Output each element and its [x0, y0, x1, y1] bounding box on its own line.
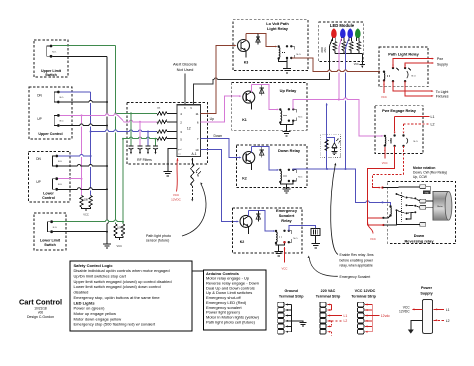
wire black upper limit common	[53, 55, 108, 57]
ground K1	[282, 131, 290, 133]
svg-text:K2: K2	[242, 177, 247, 181]
svg-text:LED Module: LED Module	[330, 23, 355, 28]
svg-text:K2: K2	[240, 240, 245, 244]
svg-text:VCC: VCC	[83, 213, 89, 217]
wire blue upper DN	[60, 91, 91, 93]
leader arrow future sensor	[182, 184, 206, 237]
upper control box	[29, 87, 72, 139]
svg-text:L1: L1	[431, 115, 435, 119]
LED D5 red	[332, 29, 337, 38]
wire black switch-common vertical to ground	[106, 56, 108, 244]
svg-text:gnd: gnd	[178, 149, 181, 151]
svg-text:VCC: VCC	[282, 267, 288, 271]
wire reversing top feed	[383, 186, 420, 189]
wire blue pin 7 Down to K2	[200, 139, 240, 158]
svg-text:K1: K1	[242, 118, 247, 122]
svg-text:GND: GND	[425, 193, 430, 195]
svg-text:N.O.: N.O.	[52, 51, 57, 53]
svg-text:VCC: VCC	[381, 95, 387, 99]
wire blue future LED tap	[326, 104, 328, 170]
transistor Q1	[243, 91, 255, 103]
diode D1	[261, 85, 263, 96]
wire 12vdc	[372, 314, 379, 316]
ground sonalert	[275, 251, 283, 253]
wire L2 in power supply dashed	[434, 319, 444, 321]
svg-text:Cart Control: Cart Control	[19, 298, 62, 307]
wire sonalert relay common to ground	[276, 242, 285, 245]
capacitor RF C2	[139, 122, 141, 146]
svg-text:Motor up engage yellow: Motor up engage yellow	[74, 311, 117, 316]
wire red power engage output solid	[368, 146, 395, 218]
VCC stub sonalert contact	[284, 247, 286, 249]
svg-text:Up Relay: Up Relay	[280, 88, 297, 93]
svg-text:Emergency Sonalert: Emergency Sonalert	[340, 275, 371, 279]
wire brown pin 11 to K3	[200, 46, 235, 114]
svg-text:Design C.Gordon: Design C.Gordon	[27, 315, 54, 319]
lower limit switch box	[34, 213, 66, 250]
wire motor lead 2	[415, 206, 420, 208]
svg-text:Path light photo cell (future): Path light photo cell (future)	[206, 319, 256, 324]
resistor RF R4	[157, 137, 167, 140]
wire T1 to motor top	[426, 187, 431, 191]
wire black lower UP common rail	[58, 188, 107, 190]
svg-text:Up, CCW: Up, CCW	[413, 175, 428, 179]
relay K1 coil	[279, 108, 281, 110]
wire magenta UP bus vertical	[81, 115, 83, 195]
wire red dashed to reversing relay top	[372, 146, 403, 186]
wire motor lead 1	[415, 198, 420, 201]
svg-text:N.O.: N.O.	[53, 227, 58, 229]
svg-text:Down: Down	[213, 134, 222, 138]
svg-text:Disable individual up/dn contr: Disable individual up/dn controls when m…	[74, 268, 170, 273]
wire blue LED3 drop to K2 output rail	[346, 38, 349, 169]
svg-text:VCC: VCC	[117, 244, 123, 248]
wire red to light fixtures 1	[393, 81, 433, 91]
transistor Q3	[238, 40, 250, 52]
relay reversing coil	[389, 205, 391, 207]
wire black upper DN common rail	[60, 101, 107, 103]
resistor LED R7	[350, 42, 353, 51]
svg-text:N.O.: N.O.	[58, 184, 63, 186]
svg-text:Path light photo: Path light photo	[146, 234, 171, 238]
svg-text:VCC 12VDC: VCC 12VDC	[355, 289, 376, 293]
wire green lower limit to pin5 bus	[53, 221, 123, 223]
terminal spade T2	[420, 199, 426, 203]
svg-text:Terminal Strip: Terminal Strip	[279, 295, 304, 299]
wire magenta K1 output to LED and power engage relay	[293, 100, 382, 136]
svg-text:Down, CW (Rev Relay): Down, CW (Rev Relay)	[413, 170, 447, 174]
svg-text:L2: L2	[344, 319, 348, 323]
RF filters and controller dashed box	[127, 103, 208, 164]
relay path contacts	[392, 67, 394, 69]
svg-text:Safety Control Logic: Safety Control Logic	[74, 263, 114, 268]
wire sonalert collector to relay coil	[258, 211, 274, 232]
resistor R-up 10K pullup	[80, 195, 83, 207]
K3 driver box Lo Volt Path Light Relay	[233, 20, 308, 71]
wire red branch to VCC rev relay	[368, 222, 373, 234]
lower control box	[29, 152, 71, 203]
svg-text:N.O.: N.O.	[60, 121, 65, 123]
ground K3	[283, 68, 291, 70]
wire black upper UP common rail	[60, 125, 107, 127]
svg-text:Path Light Relay: Path Light Relay	[388, 51, 419, 56]
svg-text:Supply: Supply	[437, 63, 448, 67]
resistor LED R6	[342, 42, 345, 51]
K2 driver box Down Relay	[237, 145, 308, 187]
svg-text:Enable Rev relay .5ms: Enable Rev relay .5ms	[340, 253, 374, 257]
svg-text:ohm: ohm	[324, 48, 327, 53]
svg-text:L1: L1	[446, 308, 450, 312]
wire blue sonalert output to speaker	[289, 226, 316, 231]
relay K3 coil	[278, 45, 280, 47]
resistor LED R8	[357, 42, 360, 51]
svg-text:L2: L2	[431, 123, 435, 127]
relay K2 contacts N.O.	[288, 169, 290, 171]
wire red Pwr feed	[393, 59, 433, 68]
svg-text:Motor: Motor	[437, 205, 443, 208]
svg-text:LED Lights: LED Lights	[74, 300, 96, 305]
svg-text:UP: UP	[36, 180, 40, 184]
svg-text:L2: L2	[446, 319, 450, 323]
K1 driver box Up Relay	[232, 83, 307, 131]
wire red branch to reversing relay lower	[368, 218, 383, 225]
svg-text:Up/Dn limit switches stop cart: Up/Dn limit switches stop cart	[74, 274, 127, 279]
wire green upper-limit vertical	[115, 46, 117, 224]
ground power supply	[411, 320, 423, 329]
safety control logic notes box	[70, 261, 192, 331]
resistor R-dn 10K pullup	[89, 195, 92, 207]
wire L1 in power supply	[434, 308, 444, 310]
svg-text:N.O.: N.O.	[60, 97, 65, 99]
capacitor RF C4	[155, 139, 157, 146]
path light relay box	[379, 47, 428, 87]
svg-text:Relay: Relay	[281, 218, 292, 223]
svg-text:Pwr Engage Relay: Pwr Engage Relay	[382, 108, 417, 113]
svg-text:12VDC: 12VDC	[399, 310, 410, 314]
resistor future R	[325, 140, 328, 151]
svg-text:L1: L1	[344, 314, 348, 318]
arduino controls notes box	[204, 270, 267, 330]
terminal GND plate	[423, 191, 431, 195]
wire LED resistor common rail to VCC	[335, 53, 362, 55]
terminal spade T3	[420, 205, 426, 209]
svg-text:N.O.: N.O.	[58, 161, 63, 163]
leader enable rev relay	[331, 165, 338, 255]
svg-text:Lower limit switch engaged (cl: Lower limit switch engaged (closed) down…	[74, 284, 161, 289]
svg-text:Terminal Strip: Terminal Strip	[351, 295, 376, 299]
relay K1 contacts N.O.	[288, 108, 290, 110]
svg-text:DN: DN	[37, 93, 42, 97]
svg-text:Switch: Switch	[44, 243, 56, 247]
svg-text:Motor down engage yellow: Motor down engage yellow	[74, 316, 122, 321]
svg-text:12vdc: 12vdc	[381, 314, 390, 318]
wire red L1 feed	[395, 115, 430, 117]
relay reversing contacts	[396, 193, 398, 195]
terminal spade T4	[420, 223, 426, 227]
upper limit switch box	[34, 40, 68, 77]
wire K3 relay common bottom to ground	[279, 58, 287, 62]
wire L2 220vac dashed	[332, 320, 343, 322]
wire magenta upper UP	[60, 114, 82, 116]
switch upper UP N.O.	[57, 114, 60, 117]
svg-text:UP: UP	[37, 117, 41, 121]
ground K2	[282, 188, 290, 190]
svg-text:220 VAC: 220 VAC	[321, 289, 336, 293]
svg-text:vcc: vcc	[178, 154, 181, 156]
sonalert speaker LS1	[311, 229, 320, 236]
svg-text:A-1: A-1	[192, 152, 197, 156]
wire magenta pin 6 Up to K1	[200, 96, 240, 122]
wire reversing common to T4	[397, 210, 420, 224]
wire red to light fixtures 2	[405, 81, 433, 96]
wire blue DN bus vertical	[90, 92, 92, 195]
svg-text:sensor (future): sensor (future)	[146, 239, 169, 243]
wire blue pin 10 to sonalert driver	[200, 149, 238, 221]
transistor Q4	[240, 215, 252, 227]
wire green lower-limit vertical	[122, 139, 124, 224]
svg-text:relay, when applicable: relay, when applicable	[340, 264, 373, 268]
relay sonalert contacts N.O.	[283, 230, 285, 232]
wire K2 relay common to ground	[280, 181, 293, 184]
svg-text:N.O.: N.O.	[412, 76, 417, 78]
wire alert stub pin 8	[184, 74, 186, 105]
LED D6 blue	[341, 29, 346, 38]
svg-text:N.O.: N.O.	[298, 177, 303, 179]
svg-text:VCC: VCC	[354, 63, 359, 66]
relay path coil	[383, 71, 385, 73]
svg-text:N.O.: N.O.	[414, 141, 419, 143]
wire alert pin 9 to LED1	[193, 62, 329, 105]
svg-text:Ground: Ground	[285, 289, 299, 293]
wire blue to reversing coil	[388, 202, 391, 206]
resistor LED R5	[333, 42, 336, 51]
relay power engage coil	[384, 135, 386, 137]
resistor RF R2	[157, 120, 167, 123]
capacitor RF C3	[147, 132, 149, 147]
relay K3 contacts N.O.	[286, 45, 288, 47]
wire K1 collector to relay coil	[262, 85, 278, 110]
VCC stub power engage coil	[384, 147, 386, 159]
svg-text:Reversing relay: Reversing relay	[405, 238, 435, 243]
svg-text:Upper Control: Upper Control	[38, 132, 62, 136]
wire black lower DN common rail	[58, 165, 107, 167]
wire black LED1 drop to alert line	[330, 38, 333, 80]
diode D2	[261, 147, 263, 158]
LED future photo	[332, 143, 337, 148]
svg-text:12: 12	[187, 126, 191, 130]
relay power engage contacts	[393, 134, 395, 136]
wire red feed to coil bottom	[383, 216, 390, 218]
switch lower DN N.O.	[55, 155, 58, 158]
wire magenta LED2 drop to K1 output rail	[339, 38, 342, 100]
svg-text:Power on (green): Power on (green)	[74, 306, 106, 311]
svg-text:Alert Discrete: Alert Discrete	[173, 61, 198, 66]
wire magenta lower UP	[58, 178, 81, 180]
svg-text:Upper limit switch engaged (cl: Upper limit switch engaged (closed) up c…	[74, 279, 172, 284]
svg-text:10K: 10K	[84, 199, 89, 202]
wire L1 220vac	[332, 314, 343, 316]
controller IC A-1	[177, 105, 201, 157]
svg-text:Switch: Switch	[45, 73, 57, 77]
terminal spade T1	[420, 185, 426, 189]
transistor Q2	[243, 152, 255, 164]
svg-text:N.O.: N.O.	[298, 117, 303, 119]
svg-text:Fixtures: Fixtures	[436, 95, 449, 99]
svg-text:Motor rotation: Motor rotation	[413, 166, 435, 170]
wire K1 relay common to ground	[280, 121, 293, 125]
power engage relay box	[375, 106, 423, 154]
svg-text:11: 11	[195, 112, 198, 116]
svg-text:Not Used: Not Used	[177, 67, 194, 72]
ground symbol terminal strip	[299, 322, 306, 324]
wire VCC 12VDC out	[413, 308, 423, 310]
wire red VCC to IC	[176, 158, 178, 160]
down reversing relay box	[388, 181, 456, 243]
LED D8 green	[356, 29, 361, 38]
svg-text:Up: Up	[210, 117, 214, 121]
svg-text:N.O.: N.O.	[297, 54, 302, 56]
wire green into pin 5	[123, 138, 157, 140]
switch lower UP N.O.	[55, 177, 58, 180]
LED module box	[319, 22, 364, 62]
LED D7 blue	[348, 29, 353, 38]
svg-text:Down Relay: Down Relay	[278, 148, 301, 153]
resistor RF R1 10k	[157, 112, 167, 115]
wire K2 collector to relay coil	[262, 147, 278, 170]
resistor R-ll 10K pullup	[121, 224, 124, 236]
wire brown K3 relay output to path light relay	[294, 58, 379, 72]
wire green into pin 4	[116, 112, 158, 114]
svg-text:10K: 10K	[117, 226, 122, 229]
wire red L2 feed dashed	[404, 123, 430, 125]
wire green upper limit to pin4	[53, 45, 116, 47]
relay reversing link	[401, 193, 403, 222]
switch S2 lower limit N.O.	[50, 220, 53, 223]
ground IC	[164, 170, 172, 172]
svg-text:VCC: VCC	[382, 161, 388, 165]
svg-text:Light Relay: Light Relay	[267, 26, 289, 31]
leader emergency sonalert	[309, 258, 338, 277]
svg-text:DN: DN	[36, 157, 41, 161]
svg-text:before enabling power: before enabling power	[340, 258, 374, 262]
svg-text:disabled: disabled	[74, 290, 89, 295]
svg-text:Emergency stop (500 flashing r: Emergency stop (500 flashing red) w/ son…	[74, 322, 156, 327]
svg-text:To Light: To Light	[436, 90, 449, 94]
relay sonalert coil	[275, 230, 277, 232]
switch S1 upper limit N.O.	[50, 45, 53, 48]
photoresistor future sensor	[191, 158, 193, 160]
svg-text:K3: K3	[244, 61, 249, 65]
svg-text:12VDC: 12VDC	[171, 197, 182, 201]
wire IC gnd pin	[168, 149, 177, 172]
svg-text:VCC: VCC	[370, 237, 376, 241]
ground speaker	[311, 243, 319, 245]
svg-text:Power: Power	[421, 286, 433, 290]
wire K3 collector to relay coil	[258, 34, 277, 47]
resistor RF R3	[157, 130, 167, 133]
wire black lower limit common	[53, 231, 107, 233]
resistor R-ul 10K pullup	[114, 224, 117, 236]
ground switch common	[103, 243, 111, 245]
switch upper DN N.O.	[57, 91, 60, 94]
wire blue into pin 3	[91, 131, 157, 133]
svg-text:N.O.: N.O.	[293, 238, 298, 240]
capacitor RF C1	[130, 113, 132, 146]
svg-text:Supply: Supply	[420, 292, 433, 296]
svg-text:RF Filters: RF Filters	[137, 158, 152, 162]
diode D4	[257, 211, 259, 222]
wire blue lower DN	[58, 155, 90, 157]
relay K2 coil	[279, 169, 281, 171]
svg-text:Terminal Strip: Terminal Strip	[316, 295, 341, 299]
wire blue K2 output to reversing relay	[293, 169, 388, 202]
svg-text:Emergency stop, up/dn buttons: Emergency stop, up/dn buttons at the sam…	[74, 295, 161, 300]
diode D3	[257, 34, 259, 45]
future path light LED dotted box	[320, 134, 340, 157]
svg-text:Pwr: Pwr	[437, 57, 444, 61]
wire red Supply feed	[405, 63, 433, 68]
wire red feed to contacts	[383, 219, 396, 225]
svg-text:Control: Control	[42, 196, 55, 200]
VCC stub path relay coil	[383, 81, 385, 94]
wire magenta into pin 2	[82, 115, 158, 121]
sonalert driver box Emergency Sonalert Relay	[232, 208, 302, 253]
